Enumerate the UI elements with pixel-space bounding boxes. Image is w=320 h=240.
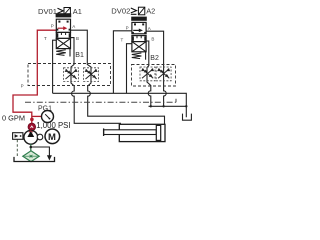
- check valve CV2 (manifold1 right): [84, 68, 99, 82]
- wire: valve1 T-port line to common return rail: [53, 40, 56, 93]
- wire: pump suction to filter: [30, 144, 32, 151]
- wire: valve1 B-port line to cylinder rod port: [71, 38, 121, 124]
- svg-text:M: M: [48, 132, 56, 143]
- filter F1: [23, 151, 39, 162]
- wire: valve2 P drop from return rail: [113, 31, 131, 94]
- check valve CV4 (manifold2 right): [156, 67, 171, 81]
- svg-text:A2: A2: [146, 6, 155, 15]
- cylinder CYL1: [104, 124, 165, 141]
- tank symbol right: [183, 114, 192, 121]
- motor M1: [45, 129, 60, 144]
- wire: valve1 A-port line to cylinder cap port: [71, 30, 165, 124]
- svg-text:T: T: [121, 38, 124, 43]
- svg-text:DV02: DV02: [111, 6, 130, 15]
- wire: common return rail to tank: [53, 93, 187, 117]
- valve DV02 body: [132, 17, 147, 60]
- check valve CV1 (manifold1 left): [64, 68, 79, 82]
- dash-dot machine boundary line: [25, 101, 176, 103]
- coupling: [37, 134, 43, 140]
- svg-text:P: P: [51, 24, 54, 29]
- svg-text:P: P: [21, 83, 24, 88]
- wire: work return rail to tank drop: [149, 105, 187, 107]
- pump P1: [24, 130, 38, 144]
- wire: red pressure line from pump to valve DV01 P: [13, 30, 56, 130]
- wire: valve2 A-port line down to work rail: [146, 31, 166, 106]
- solenoid glyph valve 2: [131, 7, 145, 15]
- svg-text:P: P: [126, 25, 129, 30]
- svg-text:A: A: [72, 24, 75, 29]
- svg-text:A1: A1: [73, 7, 82, 16]
- wire: valve2 T-port to return rail: [127, 44, 132, 94]
- wire: valve2 B-port line down to work rail: [146, 41, 150, 106]
- svg-text:DV01: DV01: [38, 7, 57, 16]
- dashed case drain line: [16, 140, 18, 158]
- node: red junction at gauge tee: [30, 118, 34, 122]
- svg-text:B2: B2: [150, 55, 159, 62]
- compensator box: [13, 133, 23, 140]
- wire: drain to tank arrow: [31, 147, 50, 156]
- check valve CV3 (manifold2 left): [140, 67, 155, 81]
- svg-text:0 GPM: 0 GPM: [2, 114, 25, 123]
- tank (reservoir) bottom left: [14, 157, 55, 162]
- node: rail junctions: [150, 105, 152, 107]
- manifold 2 dashed enclosure: [132, 65, 176, 87]
- svg-text:B1: B1: [75, 52, 84, 59]
- pressure test ball: [28, 123, 36, 131]
- valve DV01 body: [56, 14, 71, 57]
- svg-text:A: A: [148, 26, 151, 31]
- node: pump drain junction: [30, 146, 33, 149]
- gauge PG1: [42, 111, 54, 123]
- manifold 1 dashed enclosure: [28, 64, 111, 86]
- solenoid glyph valve 1: [58, 8, 71, 15]
- svg-text:B: B: [76, 36, 79, 41]
- svg-text:T: T: [44, 36, 47, 41]
- arrow into tank: [47, 155, 52, 160]
- svg-text:B: B: [151, 37, 154, 42]
